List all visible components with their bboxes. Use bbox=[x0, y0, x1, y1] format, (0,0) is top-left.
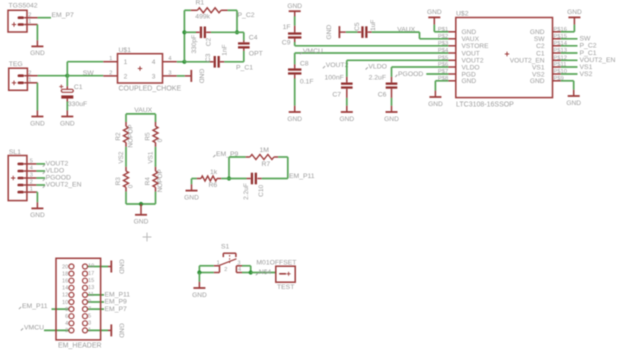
svg-text:GND: GND bbox=[427, 9, 442, 16]
svg-text:N$4: N$4 bbox=[259, 269, 272, 276]
svg-text:4: 4 bbox=[168, 56, 171, 62]
wire C4 to P_C1 row bbox=[243, 51, 245, 62]
svg-text:3: 3 bbox=[152, 73, 156, 80]
svg-text:R3: R3 bbox=[115, 177, 122, 186]
svg-text:SW: SW bbox=[534, 36, 545, 43]
svg-text:2: 2 bbox=[124, 73, 128, 80]
svg-text:GND: GND bbox=[198, 69, 205, 84]
svg-text:1: 1 bbox=[28, 19, 31, 25]
svg-text:VAUX: VAUX bbox=[462, 36, 480, 43]
svg-text:18: 18 bbox=[62, 271, 68, 277]
svg-text:0.1F: 0.1F bbox=[300, 79, 314, 86]
svg-text:GND: GND bbox=[30, 50, 45, 57]
svg-text:3: 3 bbox=[30, 173, 33, 179]
wire TGS pin2 to EM_P7 bbox=[38, 17, 51, 19]
svg-text:4: 4 bbox=[152, 59, 156, 66]
label VMCU bbox=[300, 52, 302, 54]
svg-text:1: 1 bbox=[109, 56, 112, 62]
svg-text:R5: R5 bbox=[145, 132, 152, 141]
capacitor C5 1uF bbox=[354, 20, 377, 38]
wire to U$1 pin2 / label SW bbox=[67, 75, 103, 77]
svg-text:330pF: 330pF bbox=[191, 35, 198, 54]
svg-text:C4: C4 bbox=[249, 34, 258, 41]
wire to U$1 pin1 bbox=[67, 61, 103, 63]
svg-text:GND: GND bbox=[287, 3, 302, 10]
connector EM_HEADER bbox=[56, 258, 102, 349]
svg-text:GND: GND bbox=[428, 101, 443, 108]
capacitor C4 OPT bbox=[238, 34, 263, 57]
svg-text:5: 5 bbox=[88, 313, 91, 319]
ground C9 top inverted bbox=[287, 3, 302, 25]
svg-text:1: 1 bbox=[30, 187, 33, 193]
label EM_P9 bbox=[213, 155, 215, 157]
wire SW node up bbox=[66, 62, 68, 76]
svg-text:NOPOP: NOPOP bbox=[157, 169, 164, 192]
svg-text:C6: C6 bbox=[378, 91, 387, 98]
svg-text:10: 10 bbox=[62, 300, 68, 306]
svg-text:S1: S1 bbox=[221, 243, 230, 250]
svg-text:U$2: U$2 bbox=[456, 10, 469, 17]
resistor R1 499k bbox=[184, 0, 227, 20]
resistor R6 1k bbox=[192, 169, 222, 189]
svg-text:1F: 1F bbox=[283, 24, 291, 31]
label VOUT2 bbox=[323, 66, 325, 68]
svg-text:GND: GND bbox=[462, 78, 477, 85]
label VOUT2 SL1 bbox=[43, 165, 45, 167]
svg-text:2.2uF: 2.2uF bbox=[369, 75, 386, 82]
wire S1 to ground bbox=[198, 273, 200, 282]
wire C3 to corner bbox=[224, 61, 244, 63]
wire VS2 segment bbox=[125, 147, 127, 167]
svg-text:LTC3108-16SSOP: LTC3108-16SSOP bbox=[456, 101, 514, 108]
wire right rail top bbox=[155, 114, 157, 122]
node R6 R7 C10 junction bbox=[227, 176, 231, 180]
svg-text:SW: SW bbox=[580, 35, 592, 42]
resistor R4 NOPOP bbox=[145, 167, 164, 193]
wire P$15 SW bbox=[561, 38, 578, 40]
svg-text:C8: C8 bbox=[300, 60, 309, 67]
svg-text:0: 0 bbox=[157, 138, 164, 142]
wire P$12 bbox=[561, 59, 578, 61]
svg-text:C3: C3 bbox=[205, 53, 212, 62]
svg-text:R4: R4 bbox=[145, 177, 152, 186]
svg-text:5: 5 bbox=[30, 159, 33, 165]
wire header pin1 to ground bbox=[88, 329, 108, 331]
svg-text:EM_P11: EM_P11 bbox=[22, 303, 48, 310]
svg-text:EM_P11: EM_P11 bbox=[289, 173, 315, 180]
ground C8 bbox=[287, 106, 302, 123]
origin cross bbox=[143, 233, 152, 242]
svg-text:P$5: P$5 bbox=[438, 55, 448, 61]
resistor R7 1M bbox=[246, 147, 278, 168]
svg-text:VS2: VS2 bbox=[118, 151, 125, 164]
svg-text:VS2: VS2 bbox=[580, 71, 593, 78]
ground ladder bbox=[134, 204, 149, 226]
label N$4 bbox=[256, 273, 258, 275]
node P_C1 rail junction bbox=[182, 60, 186, 64]
ground TEG bbox=[30, 110, 45, 127]
label VLDO SL1 bbox=[43, 172, 45, 174]
wire SL1 pin2 bbox=[36, 184, 45, 186]
ground C7 bbox=[339, 106, 354, 123]
resistor R5 0 bbox=[145, 122, 164, 147]
svg-text:1M: 1M bbox=[260, 147, 270, 154]
svg-text:C2: C2 bbox=[536, 43, 545, 50]
wire U$1 pin3 to ground bbox=[177, 75, 185, 77]
svg-text:R1: R1 bbox=[196, 0, 205, 7]
capacitor C6 2.2uF bbox=[369, 75, 398, 99]
svg-text:P$6: P$6 bbox=[438, 62, 448, 68]
svg-text:GND: GND bbox=[326, 25, 333, 40]
wire R7 top left bbox=[229, 156, 246, 158]
svg-text:GND: GND bbox=[30, 120, 45, 127]
ground S1 bbox=[192, 282, 207, 299]
wire down to C6 bbox=[391, 67, 393, 77]
svg-text:C7: C7 bbox=[332, 91, 341, 98]
svg-text:OPT: OPT bbox=[249, 50, 263, 57]
svg-text:VMCU: VMCU bbox=[303, 48, 323, 55]
svg-text:C1: C1 bbox=[536, 50, 545, 57]
svg-text:1: 1 bbox=[28, 77, 31, 83]
capacitor C10 2.2uF bbox=[243, 173, 265, 200]
svg-text:VOUT2: VOUT2 bbox=[326, 62, 349, 69]
svg-text:GND: GND bbox=[566, 100, 581, 107]
svg-text:13: 13 bbox=[88, 285, 94, 291]
svg-text:GND: GND bbox=[287, 116, 302, 123]
wire C5 to VAUX pin P$2 bbox=[372, 31, 420, 33]
switch S1 bbox=[214, 243, 242, 273]
wire TEG pin1 down bbox=[36, 83, 38, 111]
svg-text:C1: C1 bbox=[74, 84, 83, 91]
ground U$2 P$8 bbox=[428, 91, 443, 108]
svg-text:1: 1 bbox=[217, 260, 220, 266]
node ladder gnd junction bbox=[139, 202, 143, 206]
wire ladder top bbox=[126, 113, 156, 115]
wire gnd to P$16 bbox=[573, 25, 575, 32]
wire right rail to C4 bbox=[237, 31, 244, 33]
svg-text:EM_P7: EM_P7 bbox=[105, 306, 128, 313]
svg-text:4: 4 bbox=[65, 321, 68, 327]
svg-text:2: 2 bbox=[224, 267, 227, 273]
svg-text:GND: GND bbox=[30, 212, 45, 219]
wire VMCU to VOUT pin P$4 bbox=[295, 52, 449, 54]
svg-text:PGOOD: PGOOD bbox=[46, 175, 71, 182]
svg-text:2: 2 bbox=[28, 12, 31, 18]
ground header pin19 rotated bbox=[108, 259, 125, 274]
svg-text:COUPLED_CHOKE: COUPLED_CHOKE bbox=[119, 85, 182, 92]
wire VOUT2 to pin P$5 bbox=[347, 59, 449, 61]
wire P$13 bbox=[561, 52, 578, 54]
svg-text:EM_P9: EM_P9 bbox=[105, 299, 128, 306]
wire C2 to right rail bbox=[211, 31, 237, 33]
svg-text:499k: 499k bbox=[195, 13, 210, 20]
svg-text:TGS5042: TGS5042 bbox=[9, 2, 38, 9]
svg-text:NOPOP: NOPOP bbox=[128, 125, 135, 148]
svg-text:P_C2: P_C2 bbox=[580, 43, 597, 50]
wire U$1 pin4 to node bbox=[177, 61, 185, 63]
wire TEG pin2 to SW node bbox=[38, 75, 68, 77]
svg-text:M01OFFSET: M01OFFSET bbox=[256, 259, 296, 266]
wire header pin9 bbox=[88, 301, 104, 303]
label VMCU header bbox=[21, 328, 23, 330]
svg-text:P$7: P$7 bbox=[438, 69, 448, 75]
wire right rail bottom bbox=[155, 192, 157, 204]
svg-text:4: 4 bbox=[238, 267, 241, 273]
svg-text:GND: GND bbox=[192, 292, 207, 299]
svg-text:GND: GND bbox=[384, 116, 399, 123]
svg-text:P$4: P$4 bbox=[438, 48, 449, 54]
wire right vertical EM_P11 bbox=[287, 157, 289, 179]
wire P$8 to ground bbox=[435, 80, 448, 82]
svg-text:EM_P11: EM_P11 bbox=[105, 292, 131, 299]
svg-text:VOUT: VOUT bbox=[462, 50, 480, 57]
svg-text:R2: R2 bbox=[115, 132, 122, 141]
wire N$4 to TEST bbox=[251, 272, 276, 274]
svg-text:12: 12 bbox=[62, 293, 68, 299]
wire C10 to EM_P11 bbox=[262, 178, 288, 180]
svg-text:P_C1: P_C1 bbox=[236, 64, 253, 71]
node SW junction bbox=[65, 74, 69, 78]
svg-text:17: 17 bbox=[88, 271, 94, 277]
resistor R2 NOPOP bbox=[115, 122, 134, 148]
svg-text:2: 2 bbox=[65, 328, 68, 334]
wire down to C7 bbox=[346, 60, 348, 77]
IC U$2 LTC3108-16SSOP bbox=[438, 10, 568, 108]
transformer U$1 COUPLED_CHOKE bbox=[103, 47, 181, 93]
svg-text:1: 1 bbox=[88, 328, 91, 334]
wire C1 to ground bbox=[66, 102, 68, 111]
svg-text:SW: SW bbox=[83, 70, 95, 77]
ground C5 rotated bbox=[326, 25, 346, 40]
capacitor C9 1F bbox=[282, 24, 302, 46]
node C2 left junction bbox=[182, 30, 186, 34]
wire C9 to VSTORE pin P$3 bbox=[294, 42, 296, 46]
ground R6 rotated bbox=[184, 179, 199, 202]
ground header pin1 rotated bbox=[108, 323, 125, 338]
svg-text:11: 11 bbox=[88, 292, 94, 298]
wire ladder bottom bbox=[126, 203, 156, 205]
wire SL1 pin3 bbox=[36, 177, 45, 179]
svg-text:EM_HEADER: EM_HEADER bbox=[58, 343, 102, 350]
wire R7 top right bbox=[278, 156, 288, 158]
svg-text:GND: GND bbox=[134, 219, 149, 226]
svg-text:8: 8 bbox=[65, 307, 68, 313]
svg-text:VLDO: VLDO bbox=[46, 168, 65, 175]
svg-text:9: 9 bbox=[88, 299, 91, 305]
label EM_P11 header left bbox=[19, 307, 21, 309]
wire TGS pin1 down bbox=[36, 25, 38, 41]
svg-text:R7: R7 bbox=[262, 161, 271, 168]
wire SL1 pin5 bbox=[36, 163, 45, 165]
svg-text:P_C2: P_C2 bbox=[238, 12, 255, 19]
svg-text:VS1: VS1 bbox=[580, 64, 593, 71]
capacitor C1 330uF polarized bbox=[59, 84, 87, 108]
svg-text:GND: GND bbox=[118, 259, 125, 274]
svg-text:VLDO: VLDO bbox=[368, 63, 387, 70]
wire R1 to right rail bbox=[228, 9, 237, 11]
svg-text:VOUT2_EN: VOUT2_EN bbox=[46, 182, 82, 189]
svg-text:P$3: P$3 bbox=[438, 41, 448, 47]
wire header pin8 EM_P11 bbox=[52, 308, 69, 310]
capacitor C3 1nF bbox=[184, 44, 228, 67]
wire P$10 bbox=[561, 73, 578, 75]
svg-text:C10: C10 bbox=[258, 184, 265, 196]
svg-text:GND: GND bbox=[118, 323, 125, 338]
label PGOOD SL1 bbox=[43, 179, 45, 181]
wire P$14 bbox=[561, 45, 578, 47]
node C2 right junction bbox=[235, 30, 239, 34]
ground C1 bbox=[60, 110, 75, 127]
wire VLDO to pin P$6 bbox=[392, 66, 449, 68]
capacitor C2 330pF bbox=[184, 27, 212, 54]
connector TGS5042 bbox=[8, 2, 38, 32]
svg-text:3: 3 bbox=[88, 321, 91, 327]
svg-text:U$1: U$1 bbox=[119, 47, 132, 54]
wire P$11 bbox=[561, 66, 578, 68]
svg-text:1nF: 1nF bbox=[222, 44, 229, 55]
wire C6 to ground bbox=[391, 98, 393, 106]
svg-text:1k: 1k bbox=[210, 169, 218, 176]
svg-text:C5: C5 bbox=[354, 22, 361, 31]
wire header pin11 bbox=[88, 294, 104, 296]
svg-text:TEG: TEG bbox=[9, 61, 23, 68]
svg-text:2: 2 bbox=[109, 70, 112, 76]
svg-text:VS1: VS1 bbox=[148, 151, 155, 164]
svg-text:2.2uF: 2.2uF bbox=[243, 183, 250, 200]
svg-text:P$2: P$2 bbox=[438, 34, 448, 40]
wire left vertical bbox=[228, 157, 230, 179]
svg-text:16: 16 bbox=[62, 279, 68, 285]
label VOUT2_EN SL1 bbox=[43, 186, 45, 188]
svg-text:GND: GND bbox=[339, 116, 354, 123]
wire left rail bottom bbox=[125, 192, 127, 204]
svg-text:GND: GND bbox=[184, 194, 199, 201]
wire C8 to ground bbox=[294, 79, 296, 106]
ground U$2 P$1 inverted bbox=[427, 9, 442, 24]
svg-text:VS1: VS1 bbox=[532, 64, 545, 71]
svg-text:P$1: P$1 bbox=[438, 27, 448, 33]
capacitor C7 100nF bbox=[325, 75, 353, 99]
svg-text:2: 2 bbox=[28, 70, 31, 76]
svg-text:6: 6 bbox=[65, 314, 68, 320]
wire gnd to C5 bbox=[346, 31, 358, 33]
svg-text:VAUX: VAUX bbox=[134, 107, 152, 114]
svg-text:15: 15 bbox=[88, 278, 94, 284]
node S1 right junction bbox=[249, 270, 253, 274]
svg-text:4: 4 bbox=[30, 166, 33, 172]
connector TEG bbox=[9, 61, 38, 90]
wire header pin7 bbox=[88, 308, 104, 310]
ground U$1 pin3 rotated bbox=[185, 69, 205, 84]
svg-text:C9: C9 bbox=[282, 39, 291, 46]
svg-text:GND: GND bbox=[530, 78, 545, 85]
test point M01OFFSET bbox=[256, 259, 296, 290]
svg-text:VAUX: VAUX bbox=[397, 26, 415, 33]
wire gnd to P$1 bbox=[433, 25, 435, 32]
wire S1 right pins bbox=[242, 265, 251, 267]
label VLDO bbox=[366, 67, 368, 69]
wire S1 left pins bbox=[199, 265, 213, 267]
svg-text:GND: GND bbox=[462, 29, 477, 36]
svg-text:2: 2 bbox=[30, 180, 33, 186]
resistor R3 0 bbox=[115, 167, 134, 192]
ground TGS5042 bbox=[30, 40, 45, 57]
connector SL1 bbox=[8, 149, 36, 200]
wire VS1 segment bbox=[155, 147, 157, 167]
svg-text:330uF: 330uF bbox=[68, 101, 87, 108]
svg-text:VLDO: VLDO bbox=[462, 64, 480, 71]
svg-text:VSTORE: VSTORE bbox=[462, 43, 490, 50]
wire SL1 pin4 bbox=[36, 170, 45, 172]
wire P$9 to ground bbox=[561, 80, 574, 82]
svg-text:R6: R6 bbox=[209, 182, 218, 189]
svg-text:P$8: P$8 bbox=[438, 76, 448, 82]
svg-text:GND: GND bbox=[567, 9, 582, 16]
svg-text:20: 20 bbox=[62, 264, 68, 270]
wire header pin2 VMCU bbox=[44, 329, 69, 331]
svg-text:3: 3 bbox=[168, 70, 171, 76]
wire header pin19 to ground bbox=[88, 266, 108, 268]
wire SL1 pin1 to ground bbox=[36, 191, 37, 193]
ground U$2 P$16 inverted bbox=[567, 9, 582, 24]
wire R6 to junction bbox=[221, 178, 229, 180]
svg-text:1uF: 1uF bbox=[370, 20, 377, 31]
wire gnd to C9 bbox=[294, 16, 296, 25]
svg-text:VMCU: VMCU bbox=[24, 324, 44, 331]
wire junction to C10 bbox=[229, 178, 247, 180]
svg-text:3: 3 bbox=[237, 260, 240, 266]
svg-text:7: 7 bbox=[88, 306, 91, 312]
capacitor C8 0.1F bbox=[288, 60, 314, 85]
label PGOOD bbox=[395, 75, 397, 77]
svg-text:EM_P7: EM_P7 bbox=[52, 12, 75, 19]
svg-text:19: 19 bbox=[88, 264, 94, 270]
ground C6 bbox=[384, 106, 399, 123]
wire left rail bbox=[183, 10, 185, 62]
ground U$2 P$9 bbox=[566, 90, 581, 107]
wire SW node to C1 bbox=[66, 76, 68, 87]
wire C7 to ground bbox=[346, 98, 348, 106]
svg-text:P_C1: P_C1 bbox=[580, 50, 597, 57]
svg-text:GND: GND bbox=[530, 29, 545, 36]
node S1 left junction bbox=[197, 270, 201, 274]
ground SL1 bbox=[30, 202, 45, 219]
wire PGOOD to pin P$7 bbox=[426, 73, 448, 75]
svg-text:VOUT2: VOUT2 bbox=[46, 161, 69, 168]
svg-text:PGOOD: PGOOD bbox=[398, 71, 423, 78]
svg-text:TEST: TEST bbox=[277, 284, 294, 291]
wire down to C8 bbox=[294, 53, 296, 64]
svg-text:100nF: 100nF bbox=[325, 75, 344, 82]
wire left rail top bbox=[125, 114, 127, 122]
svg-text:14: 14 bbox=[62, 286, 68, 292]
svg-text:C2: C2 bbox=[206, 37, 213, 46]
svg-text:1: 1 bbox=[124, 59, 128, 66]
svg-text:GND: GND bbox=[60, 120, 75, 127]
svg-text:0: 0 bbox=[128, 184, 135, 188]
